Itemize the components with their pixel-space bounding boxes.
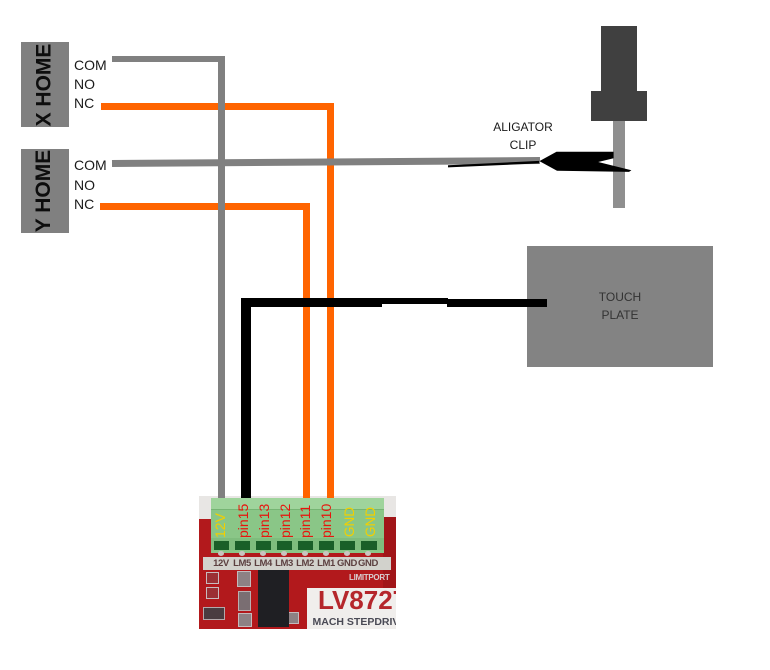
smd components left [206, 572, 219, 584]
pin label Y COM [74, 158, 107, 172]
wire X COM vertical (gray, to 12V) [218, 56, 225, 500]
chip (black) [258, 570, 289, 627]
probe handle top [601, 26, 637, 91]
wire X COM horizontal (gray) [112, 56, 225, 63]
switch box Y HOME [21, 149, 69, 233]
label LV8727 (clipped at photo edge) [307, 585, 396, 629]
wire Y NC horizontal (orange) [100, 203, 310, 210]
terminal block green [211, 498, 384, 553]
label Y HOME [21, 149, 69, 233]
board pcb red right darker [383, 517, 396, 629]
strip text [211, 558, 391, 569]
probe handle base [591, 91, 647, 122]
pin label X COM [74, 58, 107, 72]
label LIMITPORT [349, 573, 389, 582]
wire X NC horizontal (orange) [101, 103, 335, 110]
pin label pin11 [298, 504, 312, 537]
probe stem [613, 121, 625, 209]
switch box X HOME [21, 42, 69, 127]
label ALIGATOR CLIP [453, 118, 593, 154]
terminal block top bevel [211, 498, 384, 509]
aligator clip [430, 145, 640, 175]
pin label X NC [74, 96, 94, 110]
pin label GND 2 [364, 507, 378, 537]
label MACH STEPDRIVER [313, 616, 415, 628]
board photo background [199, 496, 397, 629]
label strip 12V LM5 ... [203, 557, 391, 571]
pin label pin12 [278, 503, 292, 537]
wire Y COM horizontal (gray, to aligator clip) [112, 157, 540, 166]
terminal slots [214, 541, 230, 550]
pin label X NO [74, 77, 95, 91]
label TOUCH PLATE [527, 289, 713, 324]
wire X NC vertical (orange, to pin10) [327, 103, 335, 501]
pin label 12V [213, 513, 227, 538]
solder dots [218, 551, 224, 556]
pin label GND 1 [343, 507, 357, 537]
pin label pin13 [257, 503, 271, 537]
board pcb red [199, 519, 397, 629]
pin label Y NC [74, 197, 94, 211]
pin label pin10 [319, 503, 333, 537]
wire touch plate horizontal thin middle (black) [375, 298, 448, 304]
terminal block lower shade [211, 538, 384, 550]
wire Y NC vertical (orange, to pin11) [303, 203, 311, 500]
wire touch plate horizontal into plate (black) [447, 299, 547, 307]
pin label pin15 [236, 503, 250, 537]
wire touch plate vertical (black, to pin15) [241, 298, 251, 501]
touch plate [527, 246, 713, 367]
label X HOME [21, 42, 69, 127]
white label LV8727 [307, 588, 396, 629]
pin label Y NO [74, 178, 95, 192]
wire touch plate horizontal (black) [241, 298, 382, 307]
